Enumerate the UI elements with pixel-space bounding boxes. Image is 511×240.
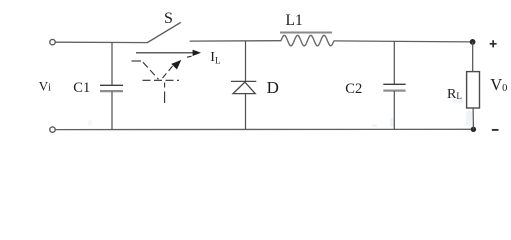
capacitor C2 [383,42,405,130]
svg-text:V0: V0 [490,75,507,94]
wire top rail right segment (inductor to node) [334,41,471,42]
switch S [147,22,181,42]
wire RL branch upper [472,42,474,72]
C2 bottom plate [383,89,405,91]
junction node bottom-right [471,127,476,132]
wire top rail left segment [55,41,147,43]
emitter diagonal dashed [163,65,174,78]
L1 core bar [280,32,332,34]
svg-text:C2: C2 [345,81,362,97]
emitter dash beyond arrowhead [187,56,192,57]
inductor L1 [280,33,334,46]
diode triangle [233,82,255,94]
base lead vertical dash 1 [164,83,166,88]
wire C2 branch lower [393,91,395,129]
svg-text:L1: L1 [286,12,303,29]
C1 top plate [100,84,123,86]
svg-text:D: D [267,78,279,97]
wire bottom rail [55,128,471,130]
diode D [231,41,256,129]
base lead vertical dash 2 [164,92,166,104]
resistor RL [467,42,480,129]
minus sign [492,129,499,131]
wire diode branch lower [245,94,247,130]
wire RL branch lower [472,108,474,129]
input terminal bottom-left [50,127,55,132]
wire diode branch upper [245,41,247,81]
input terminal top-left [50,39,55,44]
svg-text:C1: C1 [73,80,90,96]
wire C2 branch upper [393,42,395,85]
switch blade [147,22,181,42]
L1 winding [281,35,334,46]
plus sign [490,40,497,47]
collector lead dash (top-left horizontal) [132,60,142,62]
svg-text:S: S [164,10,173,27]
jpeg artifact smudges [88,99,472,127]
collector diagonal dashed [143,62,159,79]
C2 top plate [383,83,405,85]
wire C1 branch lower [111,92,113,130]
transistor (dashed, implements switch S) [132,56,192,103]
wire C1 branch upper [111,42,113,85]
base bar dashed [143,79,180,81]
junction node top-right [470,39,476,45]
current arrow IL [136,52,195,54]
capacitor C1 [100,42,123,129]
diode cathode bar [231,80,256,82]
svg-text:IL: IL [210,50,220,65]
RL body [467,72,480,108]
svg-text:Vi: Vi [39,79,51,94]
transistor emitter arrowhead [171,60,181,70]
wire top rail right segment (switch to inductor) [190,40,282,42]
C1 bottom plate [100,90,123,92]
